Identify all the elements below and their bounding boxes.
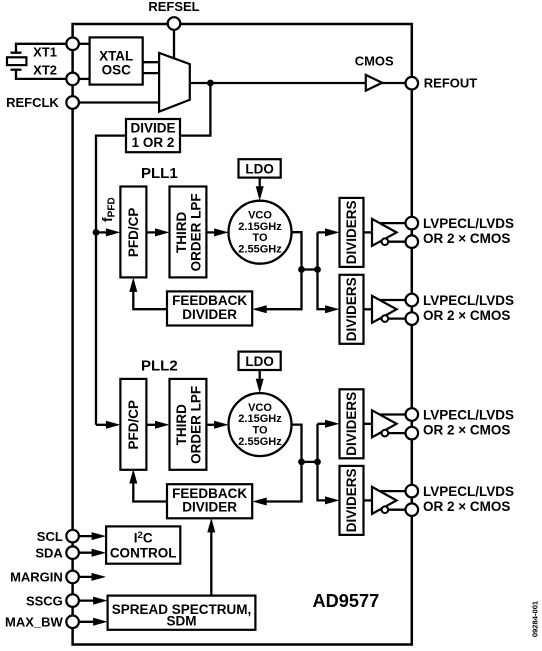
svg-text:VCO: VCO — [248, 210, 272, 222]
svg-text:VCO: VCO — [248, 402, 272, 414]
svg-text:OR 2 × CMOS: OR 2 × CMOS — [423, 499, 510, 514]
svg-text:OR 2 × CMOS: OR 2 × CMOS — [423, 308, 510, 323]
svg-text:LVPECL/LVDS: LVPECL/LVDS — [423, 216, 514, 231]
svg-text:CMOS: CMOS — [355, 54, 394, 69]
svg-text:1 OR 2: 1 OR 2 — [132, 135, 175, 150]
svg-text:LDO: LDO — [245, 354, 274, 369]
svg-text:SDA: SDA — [35, 545, 63, 560]
svg-text:DIVIDER: DIVIDER — [182, 500, 237, 515]
svg-text:OR 2 × CMOS: OR 2 × CMOS — [423, 423, 510, 438]
svg-text:REFOUT: REFOUT — [424, 75, 478, 90]
svg-text:DIVIDERS: DIVIDERS — [344, 392, 359, 456]
svg-text:MARGIN: MARGIN — [10, 570, 63, 585]
svg-text:CONTROL: CONTROL — [110, 546, 177, 561]
svg-text:XTAL: XTAL — [99, 48, 133, 63]
svg-text:OR 2 × CMOS: OR 2 × CMOS — [423, 231, 510, 246]
svg-text:SDM: SDM — [167, 614, 197, 629]
svg-text:ORDER LPF: ORDER LPF — [188, 386, 203, 464]
svg-text:DIVIDE: DIVIDE — [130, 121, 175, 136]
svg-text:LVPECL/LVDS: LVPECL/LVDS — [423, 293, 514, 308]
svg-text:THIRD: THIRD — [174, 212, 189, 253]
svg-text:2.55GHz: 2.55GHz — [238, 243, 282, 255]
svg-text:MAX_BW: MAX_BW — [5, 615, 64, 630]
svg-text:DIVIDER: DIVIDER — [182, 307, 237, 322]
svg-text:PLL1: PLL1 — [141, 165, 178, 182]
svg-text:LDO: LDO — [245, 162, 274, 177]
svg-text:TO: TO — [252, 425, 268, 437]
svg-text:REFSEL: REFSEL — [148, 0, 199, 14]
svg-text:SSCG: SSCG — [26, 593, 63, 608]
svg-text:THIRD: THIRD — [174, 404, 189, 445]
svg-text:LVPECL/LVDS: LVPECL/LVDS — [423, 484, 514, 499]
svg-text:PFD/CP: PFD/CP — [126, 400, 141, 450]
svg-text:ORDER LPF: ORDER LPF — [188, 193, 203, 271]
svg-text:SCL: SCL — [37, 529, 63, 544]
svg-text:DIVIDERS: DIVIDERS — [344, 277, 359, 341]
svg-text:09284-001: 09284-001 — [531, 600, 540, 637]
svg-text:DIVIDERS: DIVIDERS — [344, 469, 359, 533]
svg-text:XT2: XT2 — [33, 62, 57, 77]
svg-text:AD9577: AD9577 — [313, 591, 380, 611]
svg-text:PLL2: PLL2 — [141, 357, 178, 374]
svg-text:TO: TO — [252, 232, 268, 244]
svg-text:XT1: XT1 — [33, 45, 57, 60]
svg-text:OSC: OSC — [102, 62, 132, 77]
svg-text:PFD/CP: PFD/CP — [126, 208, 141, 258]
svg-text:DIVIDERS: DIVIDERS — [344, 201, 359, 265]
svg-text:I2C: I2C — [134, 530, 153, 545]
svg-text:LVPECL/LVDS: LVPECL/LVDS — [423, 408, 514, 423]
svg-text:2.15GHz: 2.15GHz — [238, 221, 282, 233]
svg-text:REFCLK: REFCLK — [6, 95, 59, 110]
svg-text:2.55GHz: 2.55GHz — [238, 436, 282, 448]
svg-text:2.15GHz: 2.15GHz — [238, 413, 282, 425]
